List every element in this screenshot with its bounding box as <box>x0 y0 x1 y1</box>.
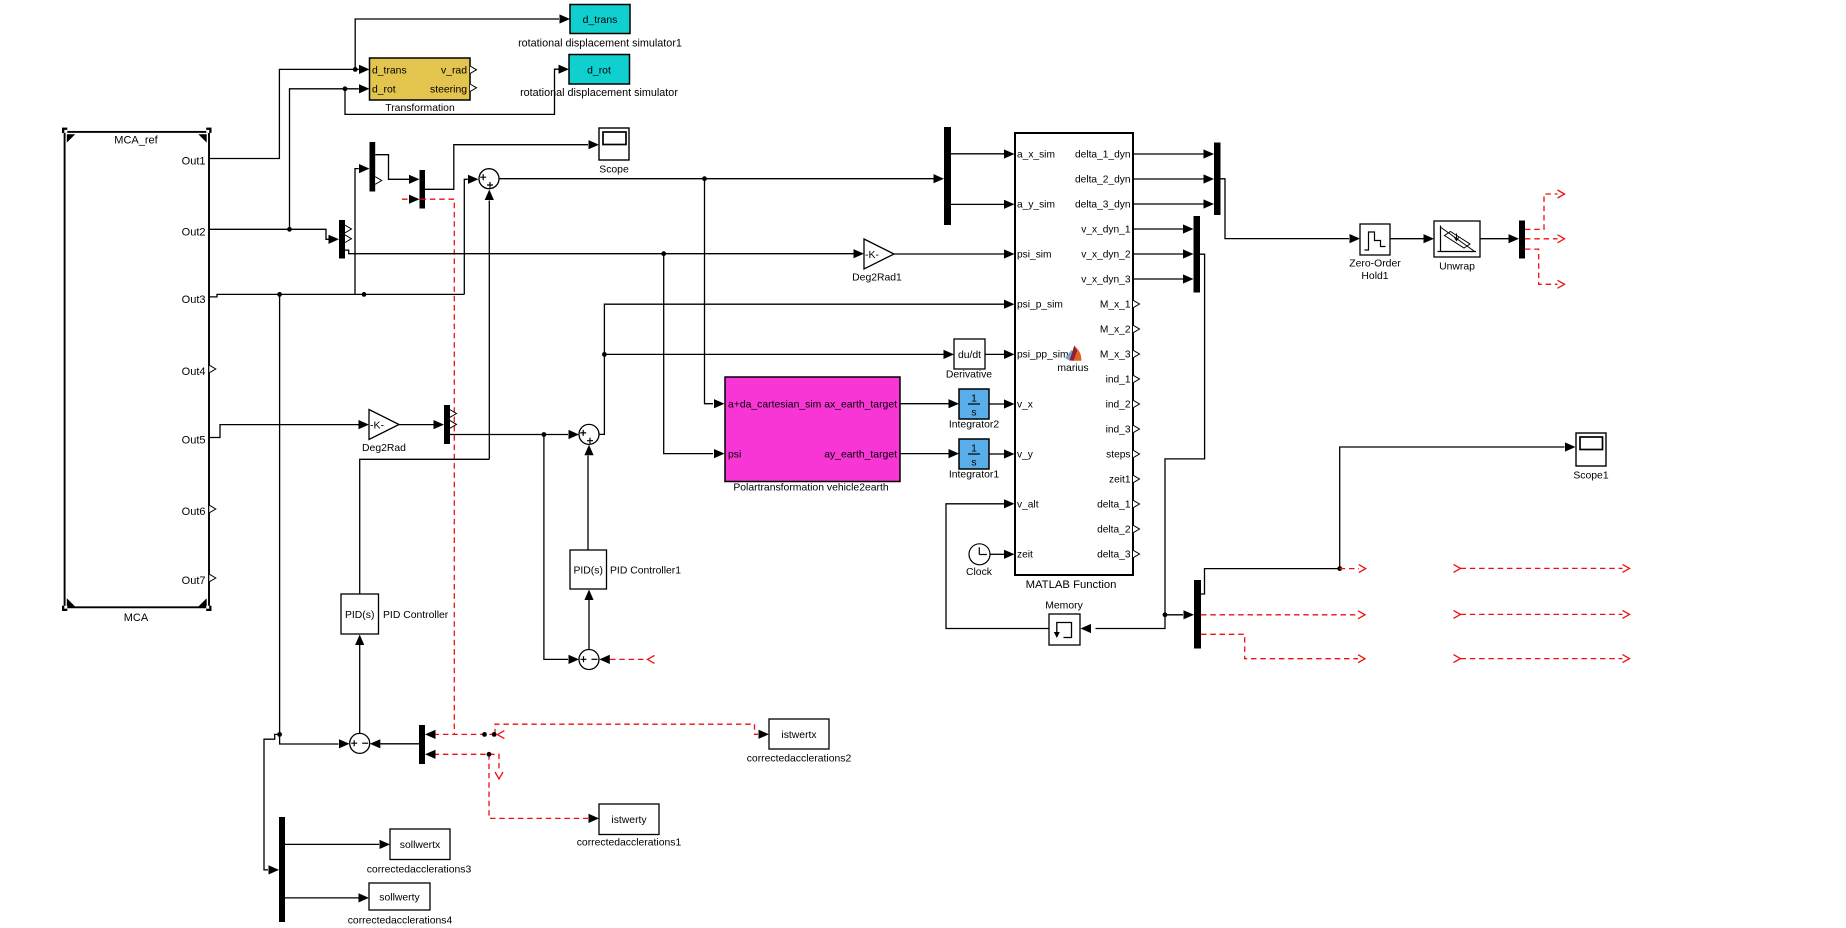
svg-text:correctedacclerations1: correctedacclerations1 <box>577 838 682 849</box>
wire mux8 out down to Memory <box>1096 254 1205 628</box>
svg-text:Integrator1: Integrator1 <box>949 470 999 481</box>
port Out7 unconnected <box>209 574 216 582</box>
junction Sum4 left input <box>277 732 282 737</box>
port Out4 unconnected <box>209 365 216 373</box>
svg-text:Out3: Out3 <box>182 294 206 306</box>
scope block Scope1 <box>1573 433 1608 482</box>
svg-text:psi_sim: psi_sim <box>1017 250 1052 261</box>
wire Out3 down to Sum4 <box>279 294 281 734</box>
svg-text:a_y_sim: a_y_sim <box>1017 200 1055 211</box>
svg-text:rotational displacement simula: rotational displacement simulator1 <box>518 38 682 50</box>
junction Out3 lower branch <box>277 292 282 297</box>
svg-text:a+da_cartesian_sim: a+da_cartesian_sim <box>728 400 821 411</box>
gain Deg2Rad (-K-) <box>362 410 406 455</box>
svg-text:v_x: v_x <box>1017 400 1033 411</box>
wire demux out2 to a_y_sim <box>951 203 1004 205</box>
svg-text:Unwrap: Unwrap <box>1439 262 1475 273</box>
block Integrator1 (1/s) <box>949 439 999 481</box>
svg-text:Zero-Order: Zero-Order <box>1349 259 1401 270</box>
port delta_2 unconnected <box>1133 525 1140 533</box>
svg-text:PID(s): PID(s) <box>573 566 602 577</box>
wire Out1 to Transformation d_trans <box>209 69 359 158</box>
wire into Sum4 left <box>280 734 339 744</box>
wire Out3 branch to demux1 <box>355 169 359 295</box>
demux5 (3 outputs) <box>444 405 450 444</box>
wire Deg2Rad1 to psi_sim <box>894 253 1004 255</box>
wire ax_earth_target to Integrator2 <box>900 403 949 405</box>
sum Sum2 <box>579 424 599 444</box>
demux1 out2 unconnected <box>375 177 382 185</box>
svg-text:M_x_2: M_x_2 <box>1100 325 1131 336</box>
port delta_3 unconnected <box>1133 550 1140 558</box>
svg-text:ind_2: ind_2 <box>1106 400 1131 411</box>
wire Integrator1 to v_y <box>989 453 1004 455</box>
block Clock <box>966 544 993 578</box>
svg-text:s: s <box>971 408 976 419</box>
wire PID Controller out up to Sum1 <box>488 201 490 460</box>
wire Unwrap to mux10 <box>1480 238 1509 240</box>
svg-text:istwerty: istwerty <box>611 815 647 826</box>
svg-text:Derivative: Derivative <box>946 370 992 381</box>
port steering unconnected <box>470 84 477 92</box>
svg-text:Memory: Memory <box>1045 601 1083 612</box>
port ind_2 unconnected <box>1133 400 1140 408</box>
red dashed mux10 out3 <box>1525 249 1558 284</box>
red dashed mux10 out1 <box>1525 194 1558 229</box>
svg-text:Scope: Scope <box>599 165 629 176</box>
svg-text:d_rot: d_rot <box>587 65 611 76</box>
wire Sum3 out up to PID Controller1 <box>588 600 590 650</box>
wire branch down to Sum3 <box>544 435 568 660</box>
wire v_x_dyn row y=254 <box>1133 253 1183 255</box>
svg-text:steps: steps <box>1106 450 1130 461</box>
junction Out1 branch <box>353 67 358 72</box>
block Memory <box>1045 601 1083 646</box>
MATLAB logo marius <box>1057 346 1088 375</box>
svg-text:-K-: -K- <box>370 419 385 431</box>
svg-text:delta_1: delta_1 <box>1097 500 1131 511</box>
svg-text:Clock: Clock <box>966 567 993 578</box>
svg-text:Integrator2: Integrator2 <box>949 420 999 431</box>
sum Sum4 <box>350 733 370 753</box>
junction derivative branch <box>602 352 607 357</box>
junction accel branch <box>702 176 707 181</box>
svg-text:marius: marius <box>1057 363 1088 374</box>
wire Sum2 out to psi_p_sim <box>599 304 1004 434</box>
sum Sum1 <box>479 169 499 189</box>
svg-text:delta_3: delta_3 <box>1097 550 1131 561</box>
block sollwertx <box>367 829 472 876</box>
mux7 delta_dyn (3 inputs) <box>1214 143 1221 216</box>
svg-text:PID Controller: PID Controller <box>383 610 449 621</box>
svg-text:rotational displacement simula: rotational displacement simulator <box>520 87 678 99</box>
block MATLAB Function (marius) <box>1015 133 1133 591</box>
svg-text:delta_2_dyn: delta_2_dyn <box>1075 175 1131 186</box>
port Out6 unconnected <box>209 505 216 513</box>
red dashed wire istwertx network (mux4 in1) <box>434 724 758 734</box>
svg-text:MCA_ref: MCA_ref <box>114 135 158 147</box>
demux9 (3 outputs) <box>1194 580 1201 649</box>
svg-text:PID(s): PID(s) <box>345 610 374 621</box>
wire delta dyn row y=179 <box>1133 178 1204 180</box>
svg-text:sollwertx: sollwertx <box>400 840 441 851</box>
wire Sum1 out to demux <box>499 178 934 180</box>
svg-text:v_x_dyn_1: v_x_dyn_1 <box>1081 225 1131 236</box>
svg-text:M_x_1: M_x_1 <box>1100 300 1131 311</box>
wire delta dyn row y=204 <box>1133 203 1204 205</box>
port steps unconnected <box>1133 450 1140 458</box>
sum Sum3 <box>579 650 599 670</box>
svg-text:Transformation: Transformation <box>385 103 455 114</box>
wire demux3 out3 psi_sim trunk <box>345 250 664 254</box>
wire Integrator2 to v_x <box>989 403 1004 405</box>
wire mux4 out to Sum4 right <box>380 743 419 746</box>
svg-text:MATLAB Function: MATLAB Function <box>1026 579 1117 591</box>
red dashed into Sum3 right input <box>610 658 646 660</box>
port M_x_3 unconnected <box>1133 350 1140 358</box>
wire branch to demux9 <box>1165 614 1183 616</box>
svg-text:correctedacclerations3: correctedacclerations3 <box>367 865 472 876</box>
port M_x_1 unconnected <box>1133 300 1140 308</box>
junction d_rot branch <box>343 86 348 91</box>
wire mux7 out to Zero-Order Hold1 <box>1221 179 1350 239</box>
junction red istwerty <box>487 752 492 757</box>
svg-text:M_x_3: M_x_3 <box>1100 350 1131 361</box>
wire Sum4 out to PID Controller <box>359 645 361 733</box>
wire Out3 to Sum left input <box>464 179 468 294</box>
wire branch to Derivative <box>604 353 943 355</box>
svg-text:psi: psi <box>728 450 741 461</box>
svg-text:d_trans: d_trans <box>372 65 407 76</box>
svg-text:zeit: zeit <box>1017 550 1033 561</box>
svg-text:v_y: v_y <box>1017 450 1034 461</box>
wire demux1 out1 to mux2 <box>375 155 409 180</box>
gain Deg2Rad1 (-K-) <box>852 239 902 284</box>
demux into a_x_sim/a_y_sim <box>944 127 951 225</box>
svg-text:ay_earth_target: ay_earth_target <box>824 450 897 461</box>
demux1 (2 outputs) <box>370 142 376 192</box>
red dashed mux10 out2 <box>1525 238 1558 240</box>
wire branch down to demux6 <box>264 734 280 870</box>
svg-text:v_x_dyn_3: v_x_dyn_3 <box>1081 275 1131 286</box>
block PID Controller <box>341 594 449 634</box>
wire ZOH to Unwrap <box>1390 238 1424 240</box>
wire PID Controller1 out to Sum2 <box>587 456 589 551</box>
block Derivative du/dt <box>946 339 992 381</box>
subsystem MCA (model reference MCA_ref) <box>62 128 212 624</box>
svg-text:ax_earth_target: ax_earth_target <box>824 400 897 411</box>
svg-text:psi_p_sim: psi_p_sim <box>1017 300 1063 311</box>
svg-text:1: 1 <box>971 444 977 455</box>
svg-text:MCA: MCA <box>124 612 149 624</box>
wire demux5 out3 to Sum2 <box>450 434 568 436</box>
svg-text:ind_3: ind_3 <box>1106 425 1131 436</box>
svg-text:1: 1 <box>971 394 977 405</box>
mux8 v_x_dyn (3 inputs) <box>1194 216 1201 293</box>
junction red istwertx 2 <box>492 732 497 737</box>
port delta_1 unconnected <box>1133 500 1140 508</box>
red dashed stub right of junction <box>1340 568 1359 570</box>
subsystem Polartransformation vehicle2earth (magenta) <box>725 377 900 494</box>
block istwerty <box>577 804 682 849</box>
svg-text:delta_1_dyn: delta_1_dyn <box>1075 150 1131 161</box>
wire Out5 to Deg2Rad <box>209 425 359 438</box>
svg-text:du/dt: du/dt <box>958 350 981 361</box>
junction red stub <box>1337 566 1342 571</box>
svg-text:Deg2Rad1: Deg2Rad1 <box>852 273 902 284</box>
demux6 (2 outputs) <box>279 817 285 922</box>
wire Memory out to v_alt <box>946 504 1049 629</box>
svg-text:steering: steering <box>430 84 467 95</box>
svg-text:zeit1: zeit1 <box>1109 475 1131 486</box>
svg-text:delta_2: delta_2 <box>1097 525 1131 536</box>
svg-text:Polartransformation vehicle2ea: Polartransformation vehicle2earth <box>733 483 889 494</box>
port M_x_2 unconnected <box>1133 325 1140 333</box>
svg-text:Out1: Out1 <box>182 156 206 168</box>
svg-text:correctedacclerations4: correctedacclerations4 <box>348 916 453 927</box>
demux3 out1 unconnected <box>345 225 352 233</box>
red stub arrow down <box>495 772 503 779</box>
wire ay_earth_target to Integrator1 <box>900 453 949 455</box>
junction psi branch <box>661 251 666 256</box>
svg-text:d_rot: d_rot <box>372 84 396 95</box>
svg-text:delta_3_dyn: delta_3_dyn <box>1075 200 1131 211</box>
red dashed demux9 out3 <box>1201 634 1358 658</box>
svg-text:v_alt: v_alt <box>1017 500 1039 511</box>
wire Clock to zeit <box>990 553 1004 555</box>
wire Out2 to demux <box>209 229 329 239</box>
svg-text:Hold1: Hold1 <box>1361 271 1388 282</box>
port v_rad unconnected <box>470 66 477 74</box>
svg-text:psi_pp_sim: psi_pp_sim <box>1017 350 1069 361</box>
subsystem Transformation (yellow) <box>370 58 471 114</box>
arrow into istwertx <box>759 730 770 739</box>
wire to Deg2Rad1 <box>664 253 854 255</box>
red dashed wire istwerty network (mux4 in2) <box>434 754 588 818</box>
wire Out2 branch to Transformation d_rot <box>290 89 359 230</box>
wire v_x_dyn row y=279 <box>1133 278 1183 280</box>
svg-text:-K-: -K- <box>865 249 880 261</box>
wire v_x_dyn row y=229 <box>1133 228 1183 230</box>
svg-text:v_x_dyn_2: v_x_dyn_2 <box>1081 250 1131 261</box>
wire branch to d_rot display block <box>345 69 559 114</box>
wire demux6 out1 to sollwertx <box>285 843 379 845</box>
port zeit1 unconnected <box>1133 475 1140 483</box>
svg-text:Scope1: Scope1 <box>1573 471 1608 482</box>
svg-text:Out5: Out5 <box>182 435 206 447</box>
wire PID Controller out right <box>360 459 490 594</box>
block Unwrap <box>1434 221 1480 273</box>
block d_trans rotational displacement simulator1 (cyan) <box>518 5 682 50</box>
svg-text:istwertx: istwertx <box>781 730 817 741</box>
svg-text:Deg2Rad: Deg2Rad <box>362 443 406 454</box>
wire demux9 out1 to Scope1 <box>1201 447 1565 594</box>
wire Deg2Rad to demux5 <box>399 424 434 426</box>
port ind_3 unconnected <box>1133 425 1140 433</box>
block PID Controller1 <box>570 550 681 589</box>
wire mux2 out to Scope <box>425 145 588 190</box>
block d_rot rotational displacement simulator (cyan) <box>520 55 678 100</box>
svg-text:a_x_sim: a_x_sim <box>1017 150 1055 161</box>
svg-text:sollwerty: sollwerty <box>379 893 420 904</box>
junction to demux9 <box>1163 612 1168 617</box>
junction to Sum3 <box>542 432 547 437</box>
demux3 out2 unconnected <box>345 235 352 243</box>
wire Out3 trunk <box>209 294 464 297</box>
block sollwerty <box>348 883 453 927</box>
svg-text:v_rad: v_rad <box>441 65 467 76</box>
svg-text:Out7: Out7 <box>182 575 206 587</box>
wire demux6 out2 to sollwerty <box>285 897 359 899</box>
block Integrator2 (1/s) <box>949 389 999 431</box>
junction Out3 <box>362 292 367 297</box>
demux3 (3 outputs) <box>339 220 345 259</box>
svg-text:d_trans: d_trans <box>583 15 618 26</box>
junction red istwertx 1 <box>482 732 487 737</box>
wire Derivative to psi_pp_sim <box>985 353 1004 355</box>
scope block Scope <box>599 128 629 176</box>
mux4 (2 red inputs) <box>419 725 425 764</box>
block istwertx <box>747 719 852 765</box>
floating red dashed line 1 <box>1454 564 1630 572</box>
wire demux out1 to a_x_sim <box>951 153 1004 155</box>
svg-text:ind_1: ind_1 <box>1106 375 1131 386</box>
mux2 (2 inputs) <box>420 170 426 209</box>
red dashed demux9 out2 <box>1201 614 1358 616</box>
floating red dashed line 3 <box>1454 655 1630 663</box>
port ind_1 unconnected <box>1133 375 1140 383</box>
junction Out2 branch <box>287 227 292 232</box>
svg-text:Out4: Out4 <box>182 366 206 378</box>
svg-text:Out2: Out2 <box>182 226 206 238</box>
wire psi branch to Polartransformation <box>664 254 713 454</box>
svg-text:s: s <box>971 458 976 469</box>
demux5 out1 unconnected <box>450 410 457 418</box>
arrow into istwerty <box>589 814 600 823</box>
demux5 out2 unconnected <box>450 421 457 429</box>
wire branch to a+da_cartesian_sim <box>705 179 714 404</box>
block Zero-Order Hold1 <box>1349 224 1401 282</box>
svg-text:PID Controller1: PID Controller1 <box>610 566 681 577</box>
mux10 (3 red outputs) <box>1519 221 1525 259</box>
wire branch to d_trans display block <box>355 19 559 69</box>
floating red dashed line 2 <box>1454 610 1630 618</box>
svg-text:Out6: Out6 <box>182 506 206 518</box>
svg-text:correctedacclerations2: correctedacclerations2 <box>747 754 852 765</box>
red stub arrow <box>497 731 504 739</box>
red dashed wire into mux2 input2 <box>402 199 454 734</box>
wire delta dyn row y=154 <box>1133 153 1204 155</box>
